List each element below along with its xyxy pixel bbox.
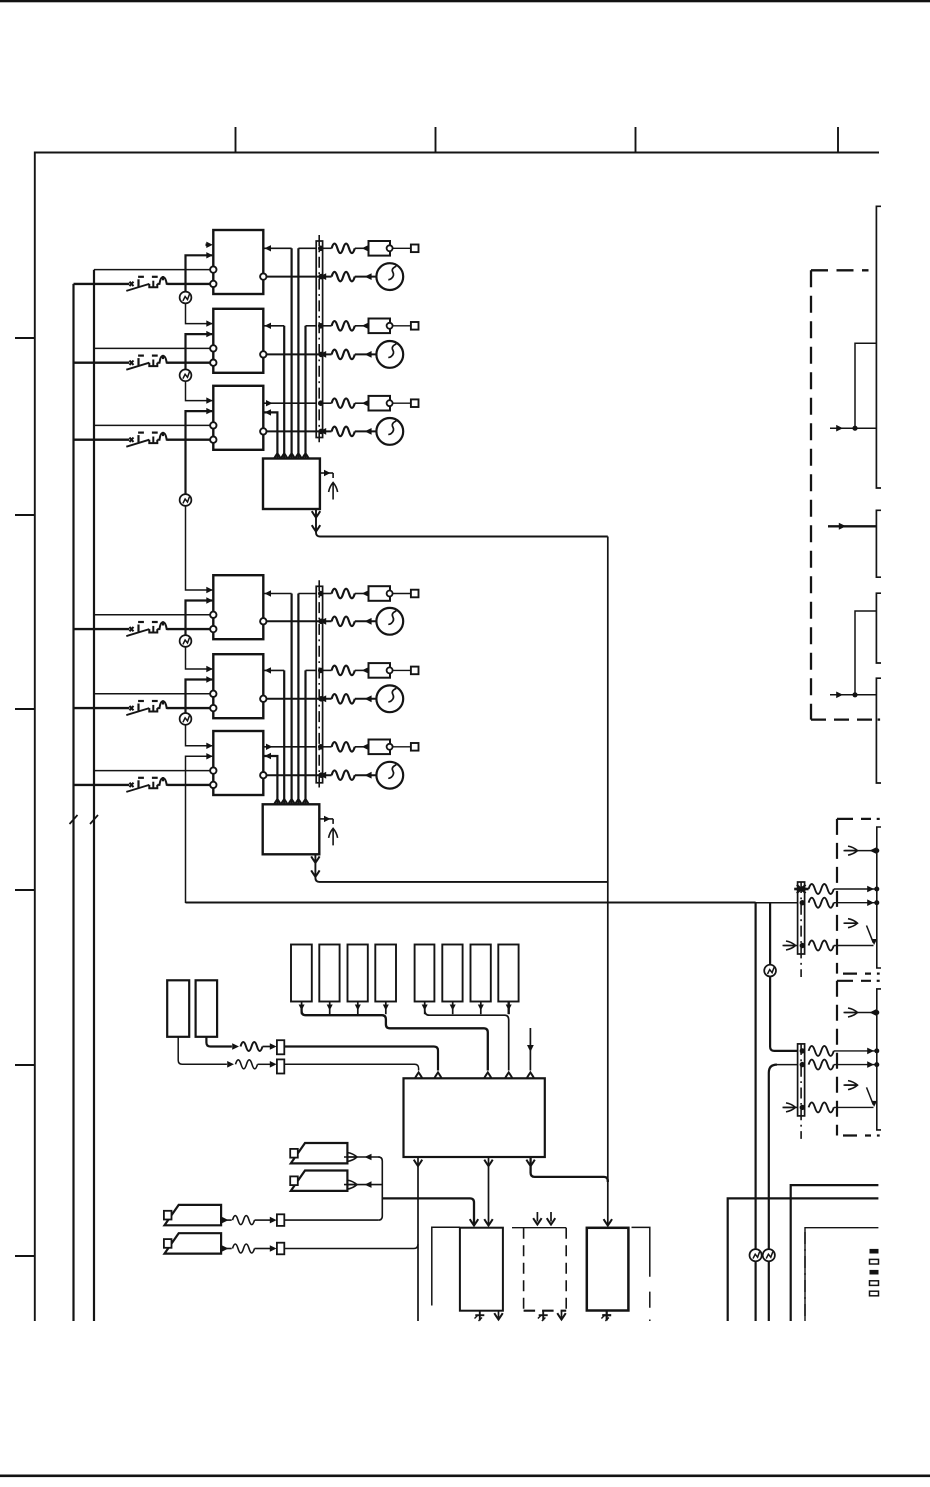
starter box K3 <box>587 1228 629 1311</box>
connector strip CN1 <box>316 241 322 438</box>
pulser coil PL4 <box>165 1233 222 1253</box>
wire: plug cap PC1 to terminal <box>393 247 411 249</box>
engine stop switch S3 <box>126 432 168 447</box>
wire: T1 pin2 down to bullet connector B1 <box>186 255 213 291</box>
terminal square PC3 <box>411 399 419 407</box>
flow arrow into processor from CN3a <box>434 1072 441 1078</box>
wire: bus vertical V0d <box>304 326 306 459</box>
junction box input arrow <box>302 453 309 459</box>
terminal square PC1 <box>411 245 419 253</box>
relay box bracket <box>432 1227 460 1305</box>
plug cap PC5 <box>369 663 391 678</box>
pin1 lead CN6 <box>809 1046 834 1056</box>
high-tension wavy lead SP4 <box>332 617 355 627</box>
bullet connector B1 <box>180 292 192 304</box>
left tick 1 <box>15 337 34 339</box>
bullet connector B3 <box>180 494 192 506</box>
terminal circle T6 left upper <box>210 767 216 773</box>
pin2 lead CN6 <box>809 1060 834 1070</box>
wire: upper feed to T2 left <box>94 347 210 349</box>
resistive wire to plug cap PC1 <box>332 244 355 253</box>
high-tension wavy lead SP3 <box>332 427 355 437</box>
junction box U2 <box>263 804 320 854</box>
wire: left rail A (from row1 upper feed down page) <box>93 270 95 1321</box>
cut box edge at CN5 <box>877 827 881 968</box>
engine stop switch S5 <box>126 700 168 715</box>
junction box input arrow <box>288 799 295 805</box>
junction box input arrow <box>295 453 302 459</box>
pulser coil PL2 <box>291 1171 348 1191</box>
terminal mark 5 <box>870 1291 879 1296</box>
terminal square PC6 <box>411 743 419 751</box>
terminal circle T1 left upper <box>210 266 216 272</box>
stub arrow 1 into K2 <box>536 1212 538 1222</box>
wire: bullet connector B3 to T4 pin1 <box>186 506 213 590</box>
wire: plug cap PC3 to terminal <box>393 402 411 404</box>
wire: T6 chain into CN5 pin2 <box>186 902 798 904</box>
wire: sensor cell R3 output stub <box>357 1002 359 1015</box>
wire: CN3a to processor <box>284 1047 438 1071</box>
external input stub into processor <box>529 1028 531 1071</box>
wire: T3 pin2 down to bullet connector B3 <box>186 411 213 494</box>
ignition coil unit T2 <box>213 309 263 373</box>
resistive wire to plug cap PC2 <box>332 321 355 331</box>
junction box input arrow <box>281 453 288 459</box>
wire: bus to T6 right input <box>264 756 277 804</box>
ignition coil unit T1 <box>213 230 263 294</box>
wire: coil output to spark plug SP6 <box>267 774 332 776</box>
wire: bullet connector B1 to T2 pin1 <box>186 303 213 323</box>
lower unit box F <box>791 1185 879 1321</box>
terminal circle T3 left lower <box>210 437 216 443</box>
wire: coil output to spark plug SP1 <box>267 276 332 278</box>
wire into box B <box>828 525 876 527</box>
wire: bus vertical V0c <box>283 326 285 459</box>
spark plug SP4 <box>376 608 403 635</box>
wire: CN6 pin2 down to lower boxes <box>775 1064 798 1066</box>
continuation arrow at U2 right <box>329 828 338 845</box>
resistive wire to plug cap PC3 <box>332 398 355 408</box>
junction box input arrow <box>295 799 302 805</box>
break mark on rail B <box>70 815 78 824</box>
cut box B left edge <box>876 510 881 577</box>
dashed box CN6 <box>837 980 871 982</box>
cut box C left edge <box>876 593 881 663</box>
wire: T5 pin2 down to bullet connector B5 <box>186 680 213 714</box>
wire: pulser rail to relay box <box>382 1198 474 1224</box>
bullet connector B5 <box>180 713 192 725</box>
wire: PL1/PL2 junction rail <box>378 1157 382 1220</box>
left tick 4 <box>15 889 34 891</box>
wire: U3 output 1 to page bottom <box>417 1157 419 1321</box>
wire: sensor cell R8 output stub <box>508 1002 510 1015</box>
wire: lower feed through switch to T4 <box>74 628 130 630</box>
connector strip CN2 <box>316 586 322 783</box>
terminal square PC4 <box>411 590 419 598</box>
wire: coil output to spark plug SP5 <box>267 698 332 700</box>
wire: left rail B (from row1 lower feed down page) <box>72 284 74 1321</box>
pin4 stub arrow at CN6 <box>784 1106 798 1108</box>
sensor cell R7 <box>471 945 491 1002</box>
plug cap PC1 <box>369 241 391 256</box>
junction box input arrow <box>274 799 281 805</box>
contact blade at CN6 <box>867 1087 874 1104</box>
top tick 4 <box>837 127 839 152</box>
high-tension wavy lead SP5 <box>332 694 355 704</box>
flex lead CN4a <box>233 1216 255 1225</box>
wire: coil output to spark plug SP3 <box>267 430 332 432</box>
wire: U3 output 2 to relay box <box>488 1157 490 1225</box>
pin2 lead CN5 <box>809 898 834 908</box>
sensor cell R8 <box>498 945 518 1002</box>
connector CN3b <box>277 1059 284 1073</box>
ignition coil unit T3 <box>213 386 263 450</box>
wire: sensor cell R5 output stub <box>424 1002 426 1015</box>
ground lead under K3 <box>606 1311 608 1321</box>
wire: plug cap PC4 to terminal <box>393 593 411 595</box>
wire: sensor cell R2 output stub <box>329 1002 331 1015</box>
wire: PL1 output <box>347 1156 380 1158</box>
terminal circle T2 left lower <box>210 360 216 366</box>
cut box edge at CN6 <box>877 989 881 1130</box>
terminal mark 2 <box>870 1259 879 1264</box>
sensor cell R5 <box>415 945 435 1002</box>
spark plug SP5 <box>376 685 403 712</box>
terminal square PC5 <box>411 667 419 675</box>
inner link in box A <box>855 343 876 428</box>
page top rule <box>0 0 930 2</box>
wire into spark plug SP2 <box>355 353 376 355</box>
pulser coil PL1 <box>291 1143 348 1163</box>
junction box input arrow <box>288 453 295 459</box>
resistive wire to plug cap PC5 <box>332 666 355 676</box>
pin4 lead CN6 <box>809 1102 834 1112</box>
wire: lower feed through switch to T5 <box>74 707 130 709</box>
wire into CN4b <box>255 1248 271 1250</box>
wire into CN4a <box>255 1219 271 1221</box>
junction box input arrow <box>302 799 309 805</box>
high-tension wavy lead SP6 <box>332 770 355 780</box>
plug cap PC6 <box>369 740 391 755</box>
continuation arrow at U1 right <box>329 483 338 500</box>
wire into plug cap PC6 <box>355 746 369 748</box>
plug cap PC2 <box>369 319 391 334</box>
mating arrow pair at CN6 <box>844 1012 877 1014</box>
stub arrow into T1 pin1 <box>206 244 210 247</box>
wire: CN4b joins U3 output 1 <box>284 1244 418 1248</box>
ignition coil unit T5 <box>213 654 263 718</box>
cut box D left edge <box>876 678 881 783</box>
lower unit box E <box>728 1198 879 1321</box>
wire: upper feed to T1 left <box>94 269 210 271</box>
wire: collector of cells R1-R4 <box>302 1006 488 1071</box>
terminal circle T4 left upper <box>210 612 216 618</box>
wire: sensor A to connector CN3b <box>178 1037 227 1065</box>
wire: T6 pin2 down to lower-right harness <box>186 756 756 902</box>
thermo sensor B <box>196 980 218 1037</box>
wire: bus vertical V1d <box>304 670 306 804</box>
flow arrow on U2 output 2 <box>311 870 319 876</box>
wire: bullet connector B4 to T5 pin1 <box>186 647 213 669</box>
plug cap PC3 <box>369 396 391 411</box>
spark plug SP2 <box>376 341 403 368</box>
sensor cell R1 <box>291 945 312 1002</box>
shield line at CN5 <box>800 882 802 977</box>
wire into spark plug SP5 <box>355 698 376 700</box>
wire: bullet connector B2 to T3 pin1 <box>186 381 213 400</box>
flow arrow at external stub <box>527 1072 534 1078</box>
terminal circle T3 left upper <box>210 422 216 428</box>
wire: bus to T4 right input <box>264 593 291 595</box>
wire: plug cap PC6 to terminal <box>393 746 411 748</box>
spark plug SP3 <box>376 418 403 445</box>
wire pin4 to contact at CN5 <box>834 945 874 947</box>
break mark on rail A <box>90 815 98 824</box>
wire: bus vertical V1c <box>283 670 285 804</box>
ground lead under K1 <box>479 1311 481 1321</box>
wire: sensor cell R6 output stub <box>452 1002 454 1015</box>
plug cap PC4 <box>369 586 391 601</box>
engine stop switch S2 <box>126 355 168 370</box>
wire: lower feed through switch to T6 <box>74 784 130 786</box>
terminal circle T3 right <box>260 428 266 434</box>
relay box K1 <box>460 1228 503 1311</box>
spark plug SP1 <box>376 263 403 290</box>
wire: T6 output to connector row 6 <box>264 746 316 748</box>
ignition coil unit T6 <box>213 731 263 795</box>
wire into spark plug SP6 <box>355 774 376 776</box>
connector CN3a <box>277 1040 284 1054</box>
wire: PL3 output <box>220 1219 231 1221</box>
top tick 1 <box>235 127 237 152</box>
junction box input arrow <box>281 799 288 805</box>
wire: U1 output down <box>316 509 608 537</box>
wire into box A <box>830 427 876 429</box>
terminal circle T6 left lower <box>210 782 216 788</box>
pin4 stub arrow at CN5 <box>784 945 798 947</box>
left tick 3 <box>15 708 34 710</box>
sensor cell R3 <box>348 945 368 1002</box>
mating arrow pair at CN5 <box>844 850 877 852</box>
wire: U1 output rail to bottom CDI box <box>607 537 609 1225</box>
wire: harness to plug cap PC4 <box>323 593 332 595</box>
wire: U1 right stub <box>320 472 333 474</box>
wire: lower feed through switch to T2 <box>74 362 130 364</box>
dashed box K2 <box>512 1227 566 1229</box>
wire: collector of cells R5-R8 <box>425 1006 509 1071</box>
wire: sensor cell R1 output stub <box>301 1002 303 1015</box>
wire: plug cap PC5 to terminal <box>393 669 411 671</box>
pin4 lead CN5 <box>809 941 834 951</box>
wire: bus vertical V0a <box>291 248 293 458</box>
flex lead CN4b <box>233 1244 255 1253</box>
flow arrow on U1 output 2 <box>312 525 320 531</box>
wire: harness to plug cap PC1 <box>323 247 332 249</box>
bullet connector B7 on harness drop <box>750 1249 762 1261</box>
resistive wire to plug cap PC6 <box>332 742 355 752</box>
wire: PL2 output <box>347 1184 382 1186</box>
sensor cell R2 <box>319 945 339 1002</box>
wire: T4 pin2 down to bullet connector B4 <box>186 601 213 636</box>
wire: bus to T2 right input <box>264 325 284 327</box>
inner boundary of lower unit <box>805 1228 878 1321</box>
shield boundary line at CN2 <box>318 580 320 791</box>
pulser coil PL3 <box>165 1205 222 1225</box>
wire: bullet connector B5 to T6 pin1 <box>186 725 213 746</box>
wire: lower feed through switch to T1 <box>74 283 130 285</box>
contact arrow at CN6 <box>844 1084 858 1086</box>
wire into plug cap PC5 <box>355 669 369 671</box>
wire: harness to plug cap PC3 <box>323 402 332 404</box>
left tick 5 <box>15 1064 34 1066</box>
terminal mark 3 <box>870 1270 879 1275</box>
bullet connector B8 on lower wire <box>763 1249 775 1261</box>
wire: T2 pin2 down to bullet connector B2 <box>186 334 213 369</box>
wire into CN3a <box>263 1046 271 1048</box>
wire: CN3b to processor <box>284 1064 418 1070</box>
wire: bus vertical V1a <box>291 594 293 805</box>
wire: sensor cell R7 output stub <box>480 1002 482 1015</box>
cut box A left edge <box>876 206 881 488</box>
down arrow under K2 <box>561 1311 563 1318</box>
bullet connector B4 <box>180 635 192 647</box>
high-tension wavy lead SP1 <box>332 272 355 282</box>
wire into plug cap PC3 <box>355 402 369 404</box>
wire: upper feed to T5 left <box>94 693 210 695</box>
wire: connector feed row 5 <box>306 669 317 671</box>
connector CN4b <box>277 1243 284 1255</box>
dashed box CN5 <box>837 818 871 820</box>
sensor cell R4 <box>375 945 396 1002</box>
wire: sensor cell R4 output stub <box>385 1002 387 1015</box>
flow arrow on U2 output 1 <box>311 856 319 862</box>
resistive wire to plug cap PC4 <box>332 589 355 599</box>
flow arrow on U1 output 1 <box>312 511 320 517</box>
wire: sensor B to connector CN3a <box>206 1037 232 1047</box>
high-tension wavy lead SP2 <box>332 350 355 360</box>
flow arrow into processor from CN3b <box>415 1072 422 1078</box>
sensor cell R6 <box>442 945 462 1002</box>
wire pin4 to contact at CN6 <box>834 1106 874 1108</box>
wire: U2 right stub <box>319 818 333 820</box>
wire: upper feed to T6 left <box>94 770 210 772</box>
contact arrow at CN5 <box>844 922 858 924</box>
junction box U1 <box>263 459 320 510</box>
wire: U2 output down <box>315 854 607 882</box>
wire pin1 to bus at CN5 <box>834 888 877 890</box>
large dashed enclosure (remote control) <box>811 269 869 271</box>
wire: connector feed row 1 <box>298 247 316 249</box>
wire pin1 to bus at CN6 <box>834 1050 877 1052</box>
wire pin2 to bus at CN5 <box>834 902 877 904</box>
wire: bus vertical V0b <box>297 248 299 458</box>
wire: T3 output to connector row 3 <box>264 402 316 404</box>
wire: bus to T5 right input <box>264 669 284 671</box>
spark plug SP6 <box>376 762 403 789</box>
wire: plug cap PC2 to terminal <box>393 325 411 327</box>
stub arrow 2 into K2 <box>550 1212 552 1222</box>
flow arrow into processor from R5-R8 <box>505 1072 512 1078</box>
shield line at CN6 <box>800 1044 802 1139</box>
wire into CN3b <box>258 1063 271 1065</box>
wire: harness drop at x755.6 <box>754 903 756 1321</box>
shield boundary line at CN1 <box>318 235 320 446</box>
wire into plug cap PC2 <box>355 325 369 327</box>
terminal circle T1 right <box>260 273 266 279</box>
connector CN4a <box>277 1214 284 1226</box>
pin1 feed wire at CN6 <box>770 903 798 1051</box>
terminal mark 4 <box>870 1281 879 1286</box>
wire into spark plug SP4 <box>355 620 376 622</box>
wire: bus vertical V1b <box>297 594 299 805</box>
wire into spark plug SP3 <box>355 430 376 432</box>
terminal square PC2 <box>411 322 419 330</box>
wire into box D <box>830 694 876 696</box>
terminal circle T6 right <box>260 772 266 778</box>
wire: harness to plug cap PC5 <box>323 669 332 671</box>
partial box K4 edge <box>632 1227 650 1276</box>
left tick 2 <box>15 514 34 516</box>
ground lead under K2 <box>542 1311 544 1321</box>
engine stop switch S4 <box>126 621 168 636</box>
processor unit U3 (CDI/ECM) <box>404 1078 545 1157</box>
wire: upper feed to T3 left <box>94 424 210 426</box>
terminal circle T1 left lower <box>210 281 216 287</box>
wire: harness to plug cap PC2 <box>323 325 332 327</box>
dash-dot boundary <box>804 1232 806 1321</box>
terminal circle T2 left upper <box>210 345 216 351</box>
wire: harness to plug cap PC6 <box>323 746 332 748</box>
wire: connector feed row 4 <box>298 593 316 595</box>
bullet connector B6 on CN6 feed <box>764 965 776 977</box>
left tick 6 <box>15 1255 34 1257</box>
wire into plug cap PC1 <box>355 247 369 249</box>
ignition coil unit T4 <box>213 575 263 639</box>
inner link in box C <box>855 611 876 695</box>
down arrow under K1 <box>498 1311 500 1318</box>
terminal circle T2 right <box>260 351 266 357</box>
terminal circle T4 right <box>260 618 266 624</box>
wire: coil output to spark plug SP2 <box>267 353 332 355</box>
pin1 stub with splice at CN5 <box>794 888 808 891</box>
engine stop switch S1 <box>126 276 168 291</box>
thermo sensor A <box>167 980 189 1037</box>
page bottom rule <box>0 1475 930 1478</box>
top tick 2 <box>435 127 437 152</box>
terminal circle T5 right <box>260 696 266 702</box>
connector strip CN6 <box>798 1044 805 1116</box>
flex lead CN3b <box>236 1060 258 1069</box>
junction box input arrow <box>274 453 281 459</box>
wire: bus to T3 right input <box>264 412 277 458</box>
top tick 3 <box>635 127 637 152</box>
wire: coil output to spark plug SP4 <box>267 620 332 622</box>
terminal circle T4 left lower <box>210 626 216 632</box>
wire: CN4a to pulser rail <box>284 1219 378 1221</box>
wire: connector feed row 2 <box>306 325 317 327</box>
pin1 lead CN5 <box>809 884 834 894</box>
connector strip CN5 <box>798 882 805 954</box>
flow arrow into processor from R1-R4 <box>484 1072 491 1078</box>
wire into spark plug SP1 <box>355 276 376 278</box>
flex lead CN3a <box>241 1042 263 1051</box>
engine stop switch S6 <box>126 777 168 792</box>
wire into plug cap PC4 <box>355 593 369 595</box>
wire: PL4 output <box>220 1248 231 1250</box>
bullet connector B2 <box>180 369 192 381</box>
terminal circle T5 left upper <box>210 691 216 697</box>
wire: lower feed through switch to T3 <box>74 439 130 441</box>
